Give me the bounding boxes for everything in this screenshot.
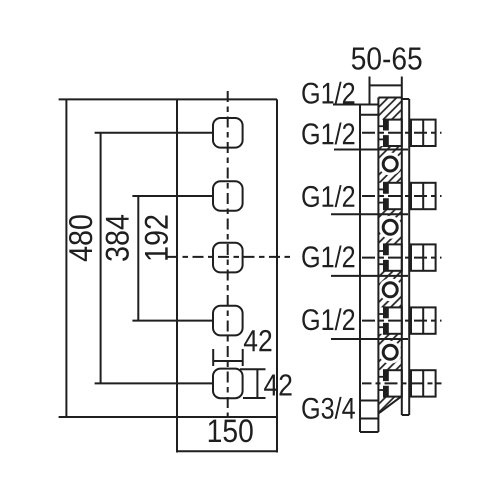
body spine left line / wall right edge: [401, 98, 403, 416]
42 width: right extension line: [242, 349, 244, 366]
50-65 right extension line: [401, 77, 403, 99]
plate right edge: [276, 99, 278, 417]
valve row 2: [362, 183, 442, 209]
body spine top cap: [402, 98, 409, 100]
label G1/2 #3: [302, 185, 354, 207]
dimension text 480: [69, 215, 92, 261]
valve row 3: [362, 244, 442, 270]
vertical centerline of plate: [227, 91, 229, 421]
flush box top rung / G1/2 label1 leader: [333, 104, 378, 106]
valve row 4: [362, 307, 442, 333]
dimension text 150: [209, 419, 253, 442]
G3/4 outlet pipe rung 1: [360, 400, 378, 402]
label G1/2 #5: [302, 308, 354, 330]
dimension line 384: [100, 133, 102, 384]
label G3/4: [302, 397, 355, 419]
dimension line 480: [65, 99, 67, 417]
extension line square1 center: [95, 132, 213, 134]
150: left extension line: [176, 417, 178, 453]
handle square S4: [213, 306, 243, 336]
handle square S1: [213, 118, 243, 148]
label G1/2 #1: [302, 82, 354, 104]
dimension text 50-65: [352, 47, 422, 70]
handle square S3: [213, 243, 243, 273]
handle square S2: [213, 181, 243, 211]
body spine right line: [408, 99, 410, 415]
white cut-outs in the wall for valve rows: [377, 120, 402, 397]
G3/4 outlet pipe bottom: [360, 431, 378, 433]
label G1/2 #2: [302, 123, 354, 145]
42 width: dimension line: [213, 360, 243, 362]
dimension text 42 (width): [244, 330, 272, 351]
label G1/2 #4: [302, 246, 354, 268]
outlet circle 4: [383, 345, 397, 359]
dimension text 192: [145, 216, 168, 260]
valve row 1: [362, 120, 442, 146]
150: dimension line: [177, 450, 277, 452]
extension line square2 center: [132, 195, 213, 197]
wall band bottom break diagonal: [378, 396, 401, 413]
wall band top edge: [378, 97, 401, 99]
flush box lower rung: [360, 114, 378, 116]
body spine bottom cap: [402, 414, 409, 416]
G1/2 label5 leader: [331, 338, 408, 340]
plate top edge + 480 top extension line: [59, 98, 277, 100]
G1/2 label2 leader: [334, 149, 408, 151]
extension line square4 center: [132, 320, 213, 322]
dimension text 42 (height): [264, 374, 292, 395]
wall cross-section hatched band: [378, 98, 401, 414]
outlet circle 2: [383, 220, 397, 234]
extension line square5 center: [95, 382, 213, 384]
outlet circle 1: [383, 157, 397, 171]
42 height: top extension line: [240, 368, 266, 370]
42 height: bottom extension line: [243, 397, 266, 399]
plate bottom edge + 480 bottom extension line: [59, 416, 277, 418]
handle square S5: [213, 369, 243, 399]
G1/2 label3 leader: [331, 213, 408, 215]
outlet circle 3: [383, 283, 397, 297]
wall band left edge: [377, 98, 379, 433]
horizontal centerline through middle square: [167, 256, 294, 258]
dimension line 192: [137, 196, 139, 321]
valve row 5: [362, 370, 442, 396]
finished-wall front line: [359, 105, 361, 433]
50-65 dimension line: [370, 84, 402, 86]
plate left edge: [176, 99, 178, 417]
white halos for outlet circles: [379, 153, 402, 176]
G1/2 label4 leader: [331, 275, 408, 277]
150: right extension line: [276, 417, 278, 453]
42 width: left extension line: [212, 349, 214, 366]
42 height: dimension line: [256, 369, 258, 398]
dimension text 384: [106, 215, 129, 261]
50-65 left extension line: [369, 77, 371, 106]
G3/4 outlet pipe rung 2: [360, 418, 378, 420]
